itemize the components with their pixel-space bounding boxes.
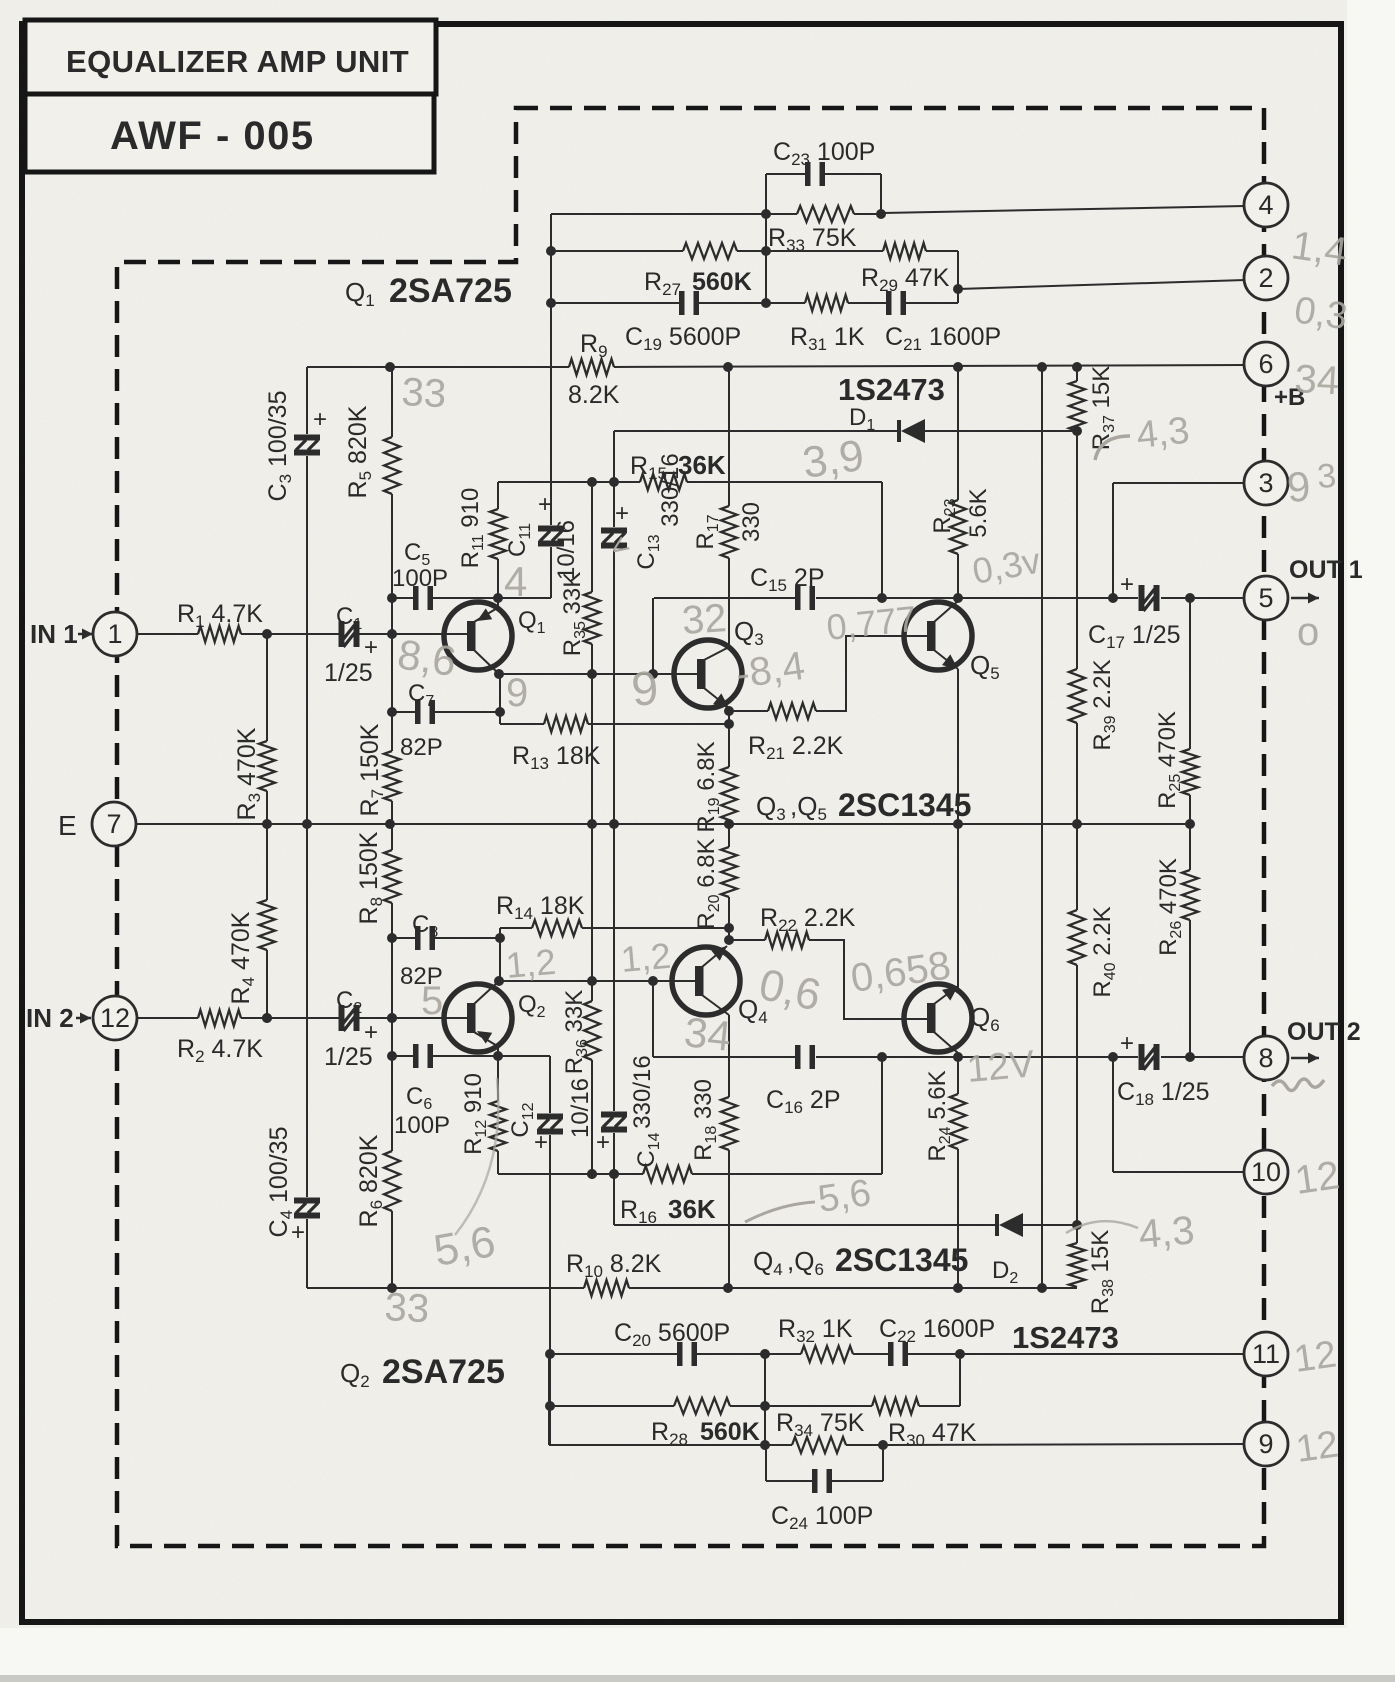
svg-text:+: +: [534, 1129, 548, 1156]
svg-text:R24 5.6K: R24 5.6K: [924, 1070, 954, 1161]
svg-text:R13 18K: R13 18K: [512, 742, 601, 773]
terminal 11: [1244, 1332, 1288, 1376]
transistor Q2 (2SA725): [444, 984, 512, 1052]
svg-text:R7 150K: R7 150K: [356, 723, 387, 816]
svg-text:C24 100P: C24 100P: [771, 1502, 873, 1533]
svg-text:R12 910: R12 910: [460, 1073, 490, 1155]
wire R27/R29 line y=251: [551, 250, 683, 252]
wire x=765 vertical: [764, 1354, 766, 1445]
svg-text:R20 6.8K: R20 6.8K: [693, 838, 723, 929]
resistor R14 (18K): [499, 928, 501, 938]
resistor R30: [872, 1398, 919, 1414]
svg-text:2SA725: 2SA725: [382, 1353, 505, 1391]
wire Q1 collector to Q3 base y=674: [499, 673, 697, 675]
title box AWF-005: [25, 94, 434, 172]
resistor R35 (33K) column: [591, 482, 593, 592]
svg-text:2SC1345: 2SC1345: [838, 787, 971, 823]
svg-text:4: 4: [504, 558, 527, 605]
svg-text:10/16: 10/16: [553, 520, 580, 580]
svg-text:100P: 100P: [392, 565, 448, 592]
svg-text:R4 470K: R4 470K: [227, 911, 258, 1004]
terminal 7 (E): [92, 802, 136, 846]
wire top-block bus (x=551): [550, 214, 552, 525]
resistor R12 (910): [497, 1056, 499, 1101]
capacitor C8 (82P): [415, 926, 421, 950]
capacitor C12 column: [549, 1056, 551, 1113]
svg-text:4: 4: [1258, 190, 1273, 220]
svg-text:2SC1345: 2SC1345: [835, 1242, 968, 1278]
resistor R10 (8.2K): [584, 1280, 629, 1296]
resistor R8 (150K): [391, 824, 393, 850]
page background: [0, 0, 1, 1]
svg-text:+: +: [596, 1129, 610, 1156]
transistor Q6 (2SC1345): [904, 984, 972, 1052]
wire R15 line y=482: [498, 481, 640, 483]
capacitor C5 (100P): [413, 586, 419, 610]
svg-text:5.6K: 5.6K: [965, 488, 992, 537]
svg-text:36K: 36K: [678, 450, 726, 480]
svg-text:C18 1/25: C18 1/25: [1117, 1078, 1210, 1109]
wire Q1 collector to C7/R13 junction x=500: [499, 674, 501, 724]
svg-text:330/16: 330/16: [629, 1055, 656, 1128]
terminal 5 (OUT 1): [1244, 576, 1288, 620]
resistor R25 (470K): [1189, 598, 1191, 749]
svg-text:1/25: 1/25: [324, 659, 373, 687]
wire C6 line y=1056: [392, 1055, 415, 1057]
resistor R40 (2.2K): [1076, 824, 1078, 910]
resistor R34: [792, 1437, 846, 1453]
svg-text:C22 1600P: C22 1600P: [879, 1315, 995, 1346]
svg-text:+: +: [538, 491, 552, 518]
wire IN2 line y=1018: [136, 1017, 198, 1019]
svg-text:34: 34: [1294, 357, 1341, 403]
resistor R22 (2.2K): [729, 939, 765, 941]
wire R16 line y=1174: [498, 1173, 643, 1175]
svg-text:330: 330: [738, 502, 765, 542]
svg-text:2: 2: [1258, 263, 1273, 293]
resistor R2 (4.7K): [198, 1010, 241, 1026]
svg-text:R32 1K: R32 1K: [778, 1315, 853, 1346]
resistor R32: [801, 1346, 853, 1362]
capacitor C23 (100P) box: [765, 174, 767, 305]
wire +B rail y=367: [307, 366, 569, 368]
svg-text:R11 910: R11 910: [457, 488, 487, 569]
svg-text:9: 9: [1258, 1429, 1273, 1459]
svg-text:12V: 12V: [965, 1043, 1037, 1091]
diode D2 (1S2473): [995, 1214, 999, 1236]
resistor R23 (5.6K): [957, 367, 959, 500]
junction dots +B rail: [385, 362, 395, 372]
resistor R3 (470K): [266, 634, 268, 741]
svg-text:R21 2.2K: R21 2.2K: [748, 732, 844, 763]
wire bottom-block left bus x=549: [548, 1354, 550, 1445]
svg-text:C19 5600P: C19 5600P: [625, 323, 741, 354]
svg-text:100P: 100P: [394, 1112, 450, 1139]
pencil annotations: [401, 370, 448, 416]
capacitor C7 (82P): [415, 700, 421, 724]
capacitor C21: [886, 291, 892, 315]
svg-text:C17 1/25: C17 1/25: [1088, 621, 1181, 652]
terminal 9: [1244, 1422, 1288, 1466]
wire C20/R32/C22 line y=1354: [549, 1353, 680, 1355]
svg-text:R8 150K: R8 150K: [355, 831, 386, 924]
resistor R38 (15K): [1076, 1225, 1078, 1243]
svg-text:560K: 560K: [700, 1418, 760, 1446]
resistor R24 (5.6K): [957, 1057, 959, 1094]
svg-text:12: 12: [1291, 1333, 1339, 1380]
wire E rail y=824: [135, 823, 1190, 825]
wire Q2 collector to C8/R14 junction x=500: [499, 928, 501, 981]
transistor Q4 (2SC1345): [672, 947, 740, 1015]
svg-text:R39 2.2K: R39 2.2K: [1089, 659, 1119, 750]
wire corner x=882 down to out line: [881, 482, 883, 598]
resistor R21 (2.2K): [729, 710, 768, 712]
capacitor C19: [679, 291, 685, 315]
svg-text:12: 12: [100, 1003, 130, 1033]
svg-text:10/16: 10/16: [567, 1078, 594, 1138]
capacitor C22: [888, 1342, 894, 1366]
svg-text:1: 1: [107, 619, 122, 649]
svg-text:0,3: 0,3: [1292, 289, 1350, 338]
svg-text:o: o: [1297, 610, 1319, 654]
resistor R13 (18K): [499, 712, 501, 724]
svg-text:7: 7: [106, 809, 121, 839]
svg-text:C23 100P: C23 100P: [773, 138, 875, 169]
svg-text:1S2473: 1S2473: [838, 372, 945, 407]
wire OUT1 line y=598: [654, 597, 795, 599]
resistor R4 (470K): [266, 824, 268, 900]
resistor R37 (15K): [1076, 367, 1078, 381]
capacitor C6 (100P): [413, 1044, 419, 1068]
svg-text:32: 32: [681, 596, 728, 643]
svg-text:+: +: [364, 1019, 378, 1046]
svg-text:R31 1K: R31 1K: [790, 323, 865, 354]
svg-text:C3 100/35: C3 100/35: [264, 391, 295, 502]
resistor R27: [683, 243, 737, 259]
transistor Q5 (2SC1345): [904, 602, 972, 670]
svg-text:8,6: 8,6: [395, 630, 459, 685]
svg-text:R5 820K: R5 820K: [344, 405, 375, 498]
svg-text:36K: 36K: [668, 1194, 716, 1224]
capacitor C11: [538, 526, 564, 532]
resistor R31: [805, 295, 848, 311]
resistor R9 (8.2K): [569, 359, 614, 375]
resistor R39 (2.2K): [1076, 431, 1078, 669]
svg-text:R3 470K: R3 470K: [233, 727, 264, 820]
svg-text:3,9: 3,9: [800, 431, 867, 488]
svg-text:9: 9: [1285, 462, 1312, 511]
svg-text:C16 2P: C16 2P: [766, 1086, 841, 1117]
wire terminal 10 connector: [1112, 1057, 1114, 1172]
transistor Q1 (2SA725): [444, 602, 512, 670]
svg-text:EQUALIZER AMP UNIT: EQUALIZER AMP UNIT: [66, 44, 409, 79]
wire +B feed x=1042: [1041, 367, 1043, 1288]
wire right corner x=958 to terminal 2: [957, 251, 959, 303]
resistor R15: [640, 474, 687, 490]
svg-text:E: E: [58, 810, 77, 841]
resistor R18 (330): [721, 1097, 737, 1150]
terminal 6 (+B): [1244, 342, 1288, 386]
svg-text:R2 4.7K: R2 4.7K: [177, 1035, 263, 1066]
svg-text:8: 8: [1258, 1043, 1273, 1073]
svg-text:3: 3: [1316, 457, 1338, 496]
svg-text:R40 2.2K: R40 2.2K: [1089, 906, 1119, 997]
terminal 2: [1244, 256, 1288, 300]
svg-text:AWF - 005: AWF - 005: [110, 114, 315, 158]
svg-text:R14 18K: R14 18K: [496, 892, 585, 923]
wire R28/R30 line y=1406: [549, 1405, 674, 1407]
diode D1 (1S2473): [897, 420, 901, 442]
svg-text:1,2: 1,2: [504, 941, 557, 986]
terminal 12 (IN 2): [93, 996, 137, 1040]
resistor R33: [797, 206, 854, 222]
svg-text:33: 33: [384, 1285, 431, 1331]
capacitor C24 (100P) box: [765, 1445, 767, 1481]
svg-text:4,3: 4,3: [1137, 1208, 1196, 1257]
resistor R26 (470K): [1189, 824, 1191, 870]
svg-text:10: 10: [1251, 1157, 1281, 1187]
svg-text:1/25: 1/25: [324, 1043, 373, 1071]
svg-text:R38 15K: R38 15K: [1087, 1230, 1117, 1315]
wire IN1 line y=634: [136, 633, 198, 635]
svg-text:560K: 560K: [692, 268, 752, 296]
wire bottom rail y=1288: [307, 1287, 584, 1289]
capacitor C20: [677, 1342, 683, 1366]
capacitor C1 (1/25): [339, 621, 345, 647]
svg-text:5: 5: [421, 979, 443, 1023]
svg-text:+: +: [1120, 1030, 1134, 1057]
svg-text:R10 8.2K: R10 8.2K: [566, 1250, 662, 1281]
wire C7 line y=712: [392, 711, 417, 713]
wire R33 rail y=214: [551, 213, 797, 215]
terminal 10: [1244, 1150, 1288, 1194]
resistor R7 (150K): [391, 598, 393, 751]
resistor R16: [643, 1166, 692, 1182]
wire Q2 collector to Q4 base y=981: [499, 980, 697, 982]
svg-text:34: 34: [682, 1008, 733, 1060]
svg-text:12: 12: [1293, 1423, 1341, 1470]
wire R16 corner x=882: [881, 1057, 883, 1174]
capacitor C13 column: [613, 431, 615, 527]
svg-text:C21 1600P: C21 1600P: [885, 323, 1001, 354]
capacitor C14 column: [601, 1112, 627, 1118]
svg-text:11: 11: [1252, 1339, 1280, 1369]
resistor R5 (820K): [391, 367, 393, 437]
svg-text:2SA725: 2SA725: [389, 272, 512, 310]
capacitor C16 (2P): [795, 1045, 801, 1069]
svg-text:1S2473: 1S2473: [1012, 1320, 1119, 1355]
terminal 1 (IN 1): [93, 612, 137, 656]
svg-text:R35 33K: R35 33K: [559, 572, 589, 657]
resistor R1 (4.7K): [198, 626, 241, 642]
svg-text:4,3: 4,3: [1135, 410, 1192, 457]
svg-text:R25 470K: R25 470K: [1154, 711, 1184, 809]
svg-text:33: 33: [401, 370, 448, 416]
svg-text:C15 2P: C15 2P: [750, 564, 825, 595]
wire C16 corner x=653: [652, 981, 654, 1057]
svg-text:C4 100/35: C4 100/35: [265, 1127, 296, 1238]
capacitor C18 (1/25): [1139, 1044, 1145, 1070]
resistor R11 (910): [497, 482, 499, 509]
svg-text:+: +: [291, 1219, 305, 1246]
svg-text:8.2K: 8.2K: [568, 381, 620, 409]
unit boundary (dashed): [117, 108, 1264, 1546]
svg-text:5: 5: [1258, 583, 1273, 613]
capacitor C4 (100/35): [306, 824, 308, 1197]
svg-text:1,4: 1,4: [1289, 223, 1350, 274]
svg-text:330/16: 330/16: [657, 453, 684, 526]
svg-text:OUT 1: OUT 1: [1289, 556, 1363, 584]
wire terminal 3 connector: [1113, 482, 1245, 484]
resistor R17 (330): [728, 367, 730, 506]
svg-text:9: 9: [629, 662, 660, 717]
svg-text:OUT 2: OUT 2: [1287, 1018, 1361, 1046]
wire C8 line y=938: [392, 937, 417, 939]
svg-text:82P: 82P: [400, 734, 443, 761]
svg-text:R36 33K: R36 33K: [561, 990, 591, 1075]
svg-text:IN 2: IN 2: [26, 1003, 74, 1033]
wire OUT2 line y=1057: [653, 1056, 795, 1058]
resistor R6 (820K): [391, 1018, 393, 1151]
svg-text:R1 4.7K: R1 4.7K: [177, 600, 263, 631]
terminal 3: [1244, 461, 1288, 505]
junction dots top block: [761, 209, 771, 219]
svg-text:9: 9: [506, 671, 528, 715]
resistor R36 (33K) column: [584, 1001, 600, 1060]
resistor R28: [674, 1398, 730, 1414]
svg-text:R18 330: R18 330: [690, 1079, 720, 1161]
svg-text:3: 3: [1258, 468, 1273, 498]
svg-text:+: +: [364, 634, 378, 661]
transistor Q3 (2SC1345): [674, 640, 742, 708]
svg-text:5,6: 5,6: [815, 1172, 873, 1221]
resistor R19 (6.8K): [721, 767, 737, 820]
svg-text:5,6: 5,6: [430, 1217, 499, 1276]
svg-text:1,2: 1,2: [619, 935, 672, 980]
terminal 8 (OUT 2): [1244, 1036, 1288, 1080]
wire x=960 corner: [959, 1354, 961, 1406]
svg-text:C20 5600P: C20 5600P: [614, 1319, 730, 1350]
wire C15 corner x=653: [652, 598, 654, 674]
capacitor C17 (1/25): [1139, 585, 1145, 611]
resistor R29: [883, 243, 926, 259]
wire R34 line y=1445: [549, 1444, 792, 1446]
svg-text:6: 6: [1258, 349, 1273, 379]
wire C19/R31/C21 line y=303: [551, 302, 682, 304]
svg-text:R26 470K: R26 470K: [1155, 858, 1185, 956]
svg-text:+: +: [1120, 571, 1134, 598]
svg-text:R19 6.8K: R19 6.8K: [693, 741, 723, 832]
svg-text:+: +: [615, 500, 629, 527]
capacitor C15 (2P): [795, 586, 801, 610]
svg-text:IN 1: IN 1: [30, 619, 78, 649]
wire D2 line y=1225: [614, 1224, 997, 1226]
svg-text:R29 47K: R29 47K: [861, 264, 950, 295]
svg-text:12: 12: [1292, 1153, 1342, 1203]
wire C5 line y=598: [392, 597, 415, 599]
capacitor C3 (100/35): [306, 367, 308, 434]
resistor R20 (6.8K): [728, 824, 730, 847]
title box EQUALIZER AMP UNIT: [25, 20, 436, 94]
svg-text:R22 2.2K: R22 2.2K: [760, 904, 856, 935]
capacitor C2 (1/25): [339, 1005, 345, 1031]
svg-text:R34 75K: R34 75K: [776, 1409, 865, 1440]
svg-text:+: +: [313, 406, 327, 433]
terminal 4: [1244, 183, 1288, 227]
svg-text:R6 820K: R6 820K: [355, 1134, 386, 1227]
wire D1 line y=431: [614, 430, 899, 432]
